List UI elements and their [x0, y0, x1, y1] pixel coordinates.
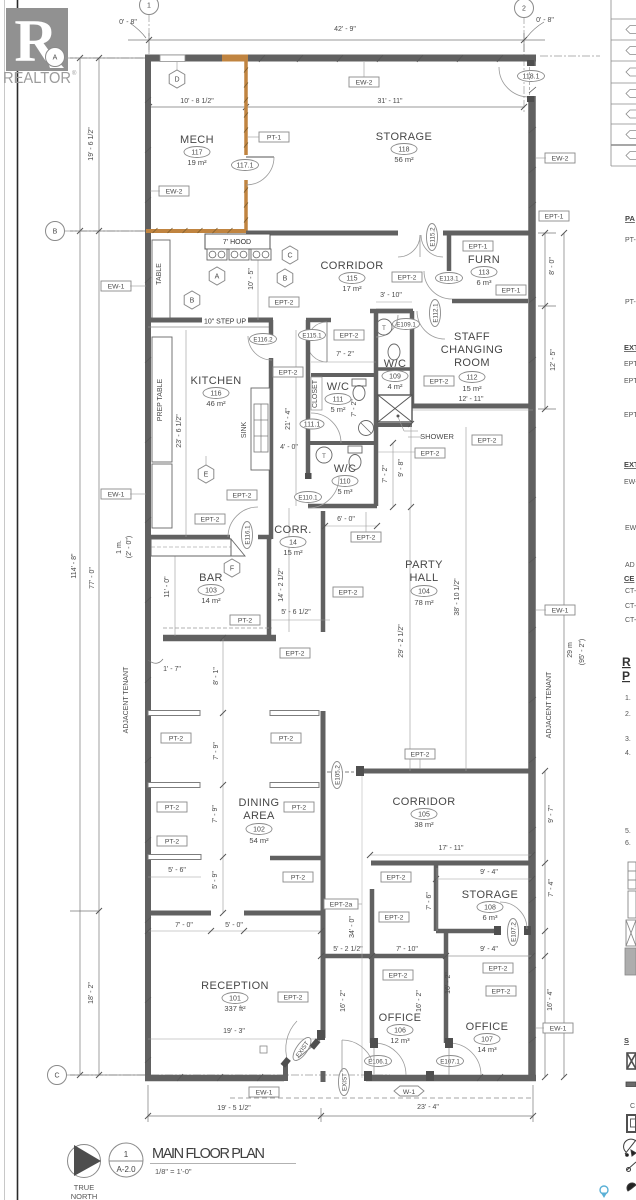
door E112.1 arc	[417, 311, 445, 339]
svg-text:114' - 8": 114' - 8"	[71, 553, 78, 579]
svg-text:10" STEP UP: 10" STEP UP	[204, 319, 246, 326]
svg-text:112: 112	[466, 374, 477, 381]
svg-text:EPT-2: EPT-2	[357, 534, 376, 541]
svg-text:EXT: EXT	[624, 460, 636, 469]
finish tag EPT-1	[496, 285, 526, 295]
grid marker C	[48, 1066, 67, 1085]
door/room oval 117	[184, 147, 210, 158]
svg-text:110: 110	[339, 478, 350, 485]
X box symbol	[627, 1053, 636, 1069]
finish tag EPT-2	[195, 514, 225, 524]
door/room oval 104	[411, 586, 437, 597]
svg-text:EXIST: EXIST	[341, 1073, 348, 1091]
wc110 south wall	[308, 504, 377, 509]
svg-text:D: D	[174, 77, 179, 84]
wall hatch marks	[145, 55, 536, 1081]
MECH south wall (orange)	[146, 229, 246, 233]
svg-text:CLOSET: CLOSET	[312, 379, 319, 408]
svg-text:19' - 6 1/2": 19' - 6 1/2"	[88, 127, 95, 161]
staff west wall	[410, 311, 415, 406]
door/room oval 116	[203, 388, 229, 399]
door/room oval 118	[391, 144, 417, 155]
door/room oval 110	[332, 476, 358, 487]
hex marker B	[184, 291, 200, 309]
svg-text:E116.1: E116.1	[244, 525, 251, 545]
svg-text:EPT-2: EPT-2	[275, 299, 294, 306]
svg-text:EPT-2: EPT-2	[492, 988, 511, 995]
svg-text:16' - 4": 16' - 4"	[547, 989, 554, 1011]
svg-text:SINK: SINK	[241, 422, 248, 439]
svg-text:C: C	[287, 253, 292, 260]
svg-text:105: 105	[418, 811, 430, 818]
vestibule wall stub	[321, 1071, 326, 1082]
svg-text:PT-2: PT-2	[279, 735, 294, 742]
svg-text:C: C	[54, 1073, 59, 1080]
finish tag PT-2	[283, 872, 313, 882]
svg-text:46 m²: 46 m²	[206, 399, 226, 408]
door/room oval 102	[246, 824, 272, 835]
svg-text:9' - 8": 9' - 8"	[398, 459, 405, 477]
kitchen north wall w/ step-up text A	[148, 318, 202, 323]
kitchen north wall B	[248, 318, 273, 323]
wc mid wall	[374, 311, 379, 506]
grid line 2 centerline	[523, 16, 525, 112]
svg-text:18' - 2": 18' - 2"	[88, 982, 95, 1004]
svg-text:54 m²: 54 m²	[249, 836, 269, 845]
svg-text:5' - 2 1/2": 5' - 2 1/2"	[333, 946, 363, 953]
bar east wall	[267, 537, 272, 636]
svg-text:PT-2: PT-2	[165, 838, 180, 845]
room label CORR 14	[274, 524, 311, 536]
office 106 west wall	[370, 889, 375, 1043]
wc109 south wall	[376, 367, 412, 371]
finish tag EPT-2	[405, 749, 435, 759]
svg-text:34' - 0": 34' - 0"	[349, 916, 356, 938]
right chain lower	[544, 771, 546, 1077]
svg-text:A: A	[215, 274, 220, 281]
shower X box	[378, 395, 412, 422]
svg-text:T: T	[382, 326, 386, 332]
door/room oval EXIST	[339, 1069, 350, 1096]
svg-text:102: 102	[253, 826, 265, 833]
svg-text:11' - 0": 11' - 0"	[164, 576, 171, 598]
tag leader lines	[150, 190, 160, 192]
svg-text:KITCHEN: KITCHEN	[190, 375, 241, 387]
room label STORAGE 118	[376, 131, 432, 143]
door/room oval 101	[222, 993, 248, 1004]
finish tag PT-2	[161, 733, 191, 743]
svg-text:EPT-2: EPT-2	[279, 369, 298, 376]
grid marker A	[46, 48, 65, 67]
svg-text:EPT: EPT	[624, 361, 636, 368]
door 111.1 arc	[311, 413, 341, 443]
svg-text:337 ft²: 337 ft²	[224, 1004, 246, 1013]
svg-text:42' - 9": 42' - 9"	[334, 26, 356, 33]
svg-text:EPT-2: EPT-2	[387, 874, 406, 881]
svg-text:23' - 4": 23' - 4"	[417, 1104, 439, 1111]
range units under hood	[207, 249, 227, 260]
svg-text:EPT-2: EPT-2	[421, 450, 440, 457]
room label CORRIDOR 105	[392, 796, 455, 808]
reception east wall	[321, 711, 326, 1038]
svg-text:E: E	[204, 472, 209, 479]
svg-text:111: 111	[333, 396, 344, 403]
svg-text:12' - 11": 12' - 11"	[458, 396, 484, 403]
svg-text:E109.1: E109.1	[396, 321, 416, 328]
door E107.2 arc	[500, 902, 527, 929]
svg-text:19 m²: 19 m²	[187, 158, 207, 167]
svg-text:OFFICE: OFFICE	[466, 1021, 509, 1033]
svg-text:6 m³: 6 m³	[477, 278, 493, 287]
svg-text:CT-: CT-	[625, 617, 636, 624]
svg-text:NORTH: NORTH	[71, 1192, 98, 1200]
svg-text:103: 103	[205, 587, 217, 594]
top wall window gap	[160, 55, 185, 62]
wc109 toilet	[388, 344, 400, 360]
page edge dark line	[17, 0, 19, 1200]
dining partition PT-2 stub	[148, 855, 201, 860]
svg-text:E115.1: E115.1	[302, 332, 322, 339]
finish tag EPT-2	[278, 992, 308, 1002]
hex marker B	[277, 269, 293, 287]
wc110 toilet	[348, 446, 362, 453]
door/room oval E115.2	[427, 224, 438, 251]
top wall orange segment	[222, 55, 248, 62]
svg-text:E107.2: E107.2	[510, 922, 517, 942]
right exterior wall EW-1	[528, 55, 536, 1081]
door/room oval 115	[339, 273, 365, 284]
svg-text:10' - 5": 10' - 5"	[248, 268, 255, 290]
svg-text:EPT-1: EPT-1	[502, 287, 521, 294]
room label BAR 103	[199, 572, 223, 584]
orange wall hatches	[153, 68, 249, 234]
svg-text:CT-: CT-	[625, 588, 636, 595]
svg-text:101: 101	[229, 995, 241, 1002]
svg-text:8' - 1": 8' - 1"	[213, 667, 220, 685]
room label W/C 110	[334, 463, 357, 475]
door/room oval 14	[280, 537, 306, 548]
svg-text:15 m²: 15 m²	[462, 384, 482, 393]
finish tag EPT-2	[383, 970, 413, 980]
svg-text:T: T	[322, 454, 326, 460]
hex marker A	[209, 267, 225, 285]
door E115.2 double arcs	[398, 235, 420, 257]
right edge legend symbols	[626, 862, 636, 946]
second dim line 10-8 / 31-11	[149, 106, 524, 108]
svg-text:7' - 0": 7' - 0"	[175, 922, 193, 929]
finish tag EW-1	[101, 489, 131, 499]
door/room oval 105	[411, 809, 437, 820]
true north symbol	[68, 1145, 102, 1178]
svg-text:3' - 10": 3' - 10"	[380, 292, 402, 299]
door/room oval E113.1	[436, 273, 463, 284]
finish tag EW-2	[349, 77, 379, 87]
svg-text:PT-2: PT-2	[291, 874, 306, 881]
svg-text:56 m²: 56 m²	[394, 155, 414, 164]
svg-text:CHANGING: CHANGING	[441, 344, 503, 356]
svg-text:EW-2: EW-2	[356, 79, 373, 86]
door/room oval 107	[474, 1034, 500, 1045]
svg-text:4.: 4.	[625, 750, 631, 757]
door 118.1 arc	[499, 67, 529, 97]
svg-text:29' - 2 1/2": 29' - 2 1/2"	[398, 624, 405, 658]
svg-text:12' - 5": 12' - 5"	[550, 349, 557, 371]
svg-text:CORR.: CORR.	[274, 524, 311, 536]
svg-text:W/C: W/C	[327, 381, 350, 393]
svg-text:10' - 8 1/2": 10' - 8 1/2"	[180, 98, 214, 105]
svg-text:A: A	[53, 55, 58, 62]
svg-text:S: S	[624, 1036, 629, 1045]
svg-text:EPT-2a: EPT-2a	[330, 901, 353, 908]
svg-text:E113.1: E113.1	[439, 275, 459, 282]
svg-text:EPT-2: EPT-2	[340, 332, 359, 339]
svg-text:104: 104	[418, 588, 430, 595]
wc cluster west wall	[306, 320, 311, 477]
room label RECEPTION 101	[201, 980, 269, 992]
finish tag EPT-2	[424, 376, 454, 386]
finish tag EPT-2	[351, 532, 381, 542]
room label W/C 111	[327, 381, 350, 393]
svg-text:117: 117	[191, 149, 202, 156]
storage 108 south wall	[436, 929, 497, 934]
MECH east wall upper (orange)	[244, 55, 248, 155]
door E116.1 arc	[228, 507, 258, 537]
svg-text:19' - 3": 19' - 3"	[223, 1028, 245, 1035]
svg-text:W-1: W-1	[403, 1089, 416, 1096]
svg-text:EPT-1: EPT-1	[469, 243, 488, 250]
svg-text:14: 14	[289, 539, 297, 546]
svg-text:1/8" = 1'-0": 1/8" = 1'-0"	[155, 1167, 192, 1176]
door/room oval E105.2	[332, 762, 343, 789]
door/room oval E115.1	[299, 330, 326, 341]
top dimension line 42-9	[128, 39, 545, 41]
svg-text:5' - 9": 5' - 9"	[212, 871, 219, 889]
svg-text:F: F	[230, 566, 234, 573]
svg-text:3.: 3.	[625, 736, 631, 743]
door jamb blocks	[364, 1071, 372, 1081]
door E106.1 arc	[374, 1043, 406, 1075]
wc111 north wall	[311, 373, 376, 377]
svg-text:78 m²: 78 m²	[414, 598, 434, 607]
svg-text:1: 1	[124, 1150, 129, 1159]
grid line B centerline	[65, 230, 148, 232]
finish tag EPT-2	[392, 272, 422, 282]
svg-text:MAIN FLOOR PLAN: MAIN FLOOR PLAN	[152, 1146, 265, 1162]
svg-text:B: B	[190, 298, 195, 305]
room label W/C 109	[384, 358, 407, 370]
svg-text:CORRIDOR: CORRIDOR	[392, 796, 455, 808]
svg-text:4 m²: 4 m²	[388, 382, 404, 391]
svg-text:B: B	[283, 276, 288, 283]
svg-text:EW-1: EW-1	[108, 491, 125, 498]
door 117.1 leaf and arc	[246, 156, 274, 158]
dining partition PT-2 stub	[148, 711, 200, 716]
svg-text:7' - 10": 7' - 10"	[396, 946, 418, 953]
prep tables	[152, 337, 172, 462]
bar south wall	[163, 635, 276, 642]
wc109 north wall	[376, 309, 413, 314]
svg-text:EPT-2: EPT-2	[284, 994, 303, 1001]
finish tag EPT-2	[472, 435, 502, 445]
svg-text:TABLE: TABLE	[156, 263, 163, 285]
svg-text:12 m³: 12 m³	[390, 1036, 410, 1045]
door/room oval 112	[459, 372, 485, 383]
svg-text:5' - 0": 5' - 0"	[225, 922, 243, 929]
finish tag PT-2	[157, 836, 187, 846]
right chain upper	[544, 233, 546, 409]
svg-text:5' - 6 1/2": 5' - 6 1/2"	[281, 609, 311, 616]
svg-text:PT-2: PT-2	[238, 617, 253, 624]
svg-text:PT-2: PT-2	[169, 735, 184, 742]
svg-text:(95' - 2"): (95' - 2")	[579, 639, 586, 665]
drawing title bubble	[109, 1143, 143, 1177]
door E107.1 arc	[449, 1043, 481, 1075]
svg-text:0' - 8": 0' - 8"	[536, 17, 554, 24]
svg-text:111.1: 111.1	[304, 421, 321, 428]
door E113.1 arc	[424, 271, 452, 299]
svg-text:23' - 6 1/2": 23' - 6 1/2"	[176, 414, 183, 448]
svg-text:1: 1	[147, 3, 151, 10]
grid marker B	[46, 222, 65, 241]
svg-text:1.: 1.	[625, 695, 631, 702]
svg-text:15 m²: 15 m²	[283, 548, 303, 557]
entry jog vertical	[283, 1061, 288, 1081]
door/room oval 106	[387, 1025, 413, 1036]
door/room oval E106.1	[365, 1056, 392, 1067]
svg-text:C: C	[630, 1103, 635, 1110]
svg-text:STORAGE: STORAGE	[462, 889, 518, 901]
finish tag EPT-2	[415, 448, 445, 458]
svg-text:CT-: CT-	[625, 603, 636, 610]
corridor 105 south wall	[371, 861, 532, 866]
svg-text:EPT-2: EPT-2	[411, 751, 430, 758]
finish tag PT-2	[284, 802, 314, 812]
door E110.1 arc	[308, 477, 339, 508]
svg-text:14 m²: 14 m²	[201, 596, 221, 605]
svg-text:®: ®	[72, 70, 77, 77]
svg-text:7' - 6": 7' - 6"	[426, 892, 433, 910]
svg-text:7' - 9": 7' - 9"	[213, 742, 220, 760]
left segment dim line	[98, 58, 100, 1075]
svg-text:PT-1: PT-1	[267, 134, 282, 141]
svg-text:2.: 2.	[625, 711, 631, 718]
right wall door gap 118.1	[528, 66, 537, 96]
svg-text:2: 2	[522, 6, 526, 13]
svg-text:RECEPTION: RECEPTION	[201, 980, 269, 992]
svg-text:7' - 2": 7' - 2"	[336, 351, 354, 358]
door/room oval 111.1	[300, 419, 324, 429]
grid line A centerline	[65, 57, 148, 59]
top exterior wall EW-2	[145, 55, 536, 62]
door/room oval E116.1	[242, 522, 253, 549]
door/room oval E109.1	[393, 319, 420, 330]
small icons bottom right	[624, 1139, 636, 1191]
svg-text:PT-: PT-	[625, 299, 636, 306]
svg-text:9' - 7": 9' - 7"	[548, 805, 555, 823]
svg-text:7' - 9": 7' - 9"	[212, 805, 219, 823]
svg-text:EPT-2: EPT-2	[430, 378, 449, 385]
svg-text:EPT-2: EPT-2	[233, 492, 252, 499]
furn west wall upper	[447, 233, 452, 271]
svg-text:9' - 4": 9' - 4"	[480, 869, 498, 876]
svg-text:SHOWER: SHOWER	[420, 432, 454, 441]
room label CORRIDOR 115	[320, 260, 383, 272]
blue location pin	[600, 1186, 608, 1198]
svg-text:E107.1: E107.1	[440, 1058, 460, 1065]
finish tag EW-1	[249, 1087, 279, 1097]
kitchen south wall	[148, 535, 230, 540]
svg-text:PARTY: PARTY	[405, 559, 443, 571]
svg-text:AD: AD	[625, 562, 635, 569]
svg-text:0' - 8": 0' - 8"	[119, 19, 137, 26]
office north wall	[325, 954, 446, 959]
svg-text:16' - 2": 16' - 2"	[416, 990, 423, 1012]
svg-text:7' - 4": 7' - 4"	[548, 879, 555, 897]
dining partition PT-2 stub	[270, 783, 319, 788]
svg-text:EW-: EW-	[625, 525, 636, 532]
svg-text:38' - 10 1/2": 38' - 10 1/2"	[454, 578, 461, 616]
svg-text:PREP TABLE: PREP TABLE	[157, 378, 164, 421]
svg-text:PT-2: PT-2	[165, 804, 180, 811]
svg-text:118.1: 118.1	[523, 73, 540, 80]
svg-text:STAFF: STAFF	[454, 331, 490, 343]
bottom wall reception	[145, 1075, 284, 1082]
svg-text:7' - 2": 7' - 2"	[382, 465, 389, 483]
grid line 2 lower dash	[540, 55, 600, 57]
finish tag PT-1	[259, 132, 289, 142]
svg-text:EPT: EPT	[624, 378, 636, 385]
bar dashed line	[163, 627, 272, 629]
finish tag EPT-1	[463, 241, 493, 251]
door EXIST 2 leaf/arc	[341, 1040, 343, 1072]
svg-text:109: 109	[389, 373, 401, 380]
svg-text:EW-2: EW-2	[166, 188, 183, 195]
finish tag EPT-2	[381, 872, 411, 882]
svg-text:B: B	[53, 229, 58, 236]
svg-text:7' HOOD: 7' HOOD	[223, 239, 251, 246]
grid line C centerline	[67, 1074, 390, 1076]
svg-text:R: R	[622, 655, 631, 669]
svg-text:8' - 0": 8' - 0"	[549, 257, 556, 275]
room label OFFICE 106	[379, 1012, 422, 1024]
grid line 1 centerline	[148, 14, 150, 110]
svg-text:ADJACENT TENANT: ADJACENT TENANT	[123, 666, 130, 733]
furn south wall	[452, 299, 528, 304]
hex marker D	[169, 70, 185, 88]
svg-text:5.: 5.	[625, 828, 631, 835]
wc111 toilet	[352, 379, 366, 386]
svg-text:FURN: FURN	[468, 254, 500, 266]
door E109.1 arc	[376, 315, 398, 337]
wc109 lavatory	[376, 319, 392, 335]
small square reception	[260, 1046, 267, 1053]
svg-text:7' - 2": 7' - 2"	[351, 399, 358, 417]
staff south wall	[412, 404, 533, 409]
left exterior wall	[145, 55, 151, 1081]
svg-text:AREA: AREA	[243, 810, 275, 822]
MECH east wall lower (orange)	[244, 180, 248, 233]
finish tag EPT-2	[334, 330, 364, 340]
svg-text:1' - 7": 1' - 7"	[163, 666, 181, 673]
bottom dim line	[148, 1115, 533, 1117]
svg-text:E112.1: E112.1	[432, 303, 439, 323]
svg-text:EPT-2: EPT-2	[389, 972, 408, 979]
svg-text:6' - 0": 6' - 0"	[337, 516, 355, 523]
bottom wall offices	[366, 1075, 536, 1082]
door/room oval 118.1	[518, 71, 545, 82]
dining partition PT-2 stub	[148, 783, 200, 788]
svg-text:EW-1: EW-1	[552, 607, 569, 614]
